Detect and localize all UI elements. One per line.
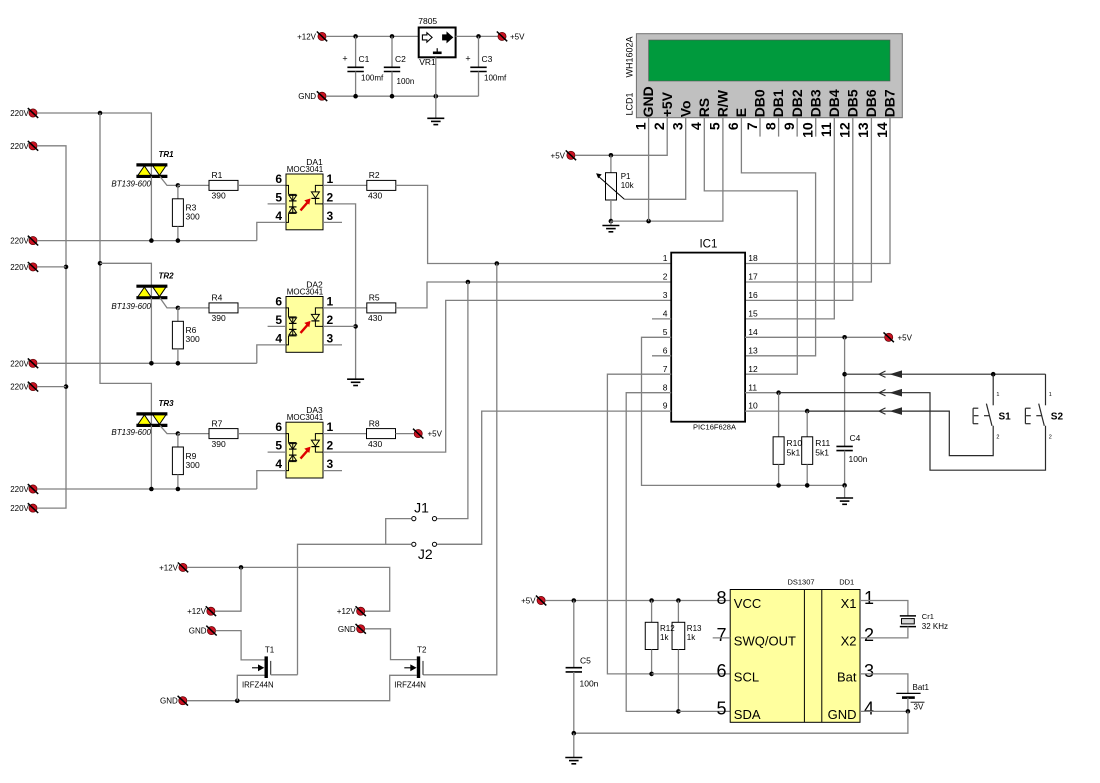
svg-text:LCD1: LCD1	[625, 92, 635, 115]
switch S2	[1025, 374, 1063, 440]
svg-text:GND: GND	[189, 627, 207, 636]
regulator VR1 7805	[418, 16, 455, 67]
node C2 bottom	[390, 94, 395, 99]
capacitor C2	[384, 36, 414, 96]
svg-text:390: 390	[212, 439, 226, 449]
wire feed branch TR2	[100, 263, 151, 286]
svg-text:100n: 100n	[849, 454, 868, 464]
node C1 top	[353, 34, 358, 39]
wire IC1 pin9 to J2	[439, 411, 671, 544]
svg-text:1: 1	[327, 420, 334, 434]
node R10 top	[776, 390, 781, 395]
svg-text:3: 3	[864, 661, 874, 681]
LCD pin 13 number	[855, 122, 871, 138]
wire DA2 pin4 to 220V row	[257, 345, 286, 363]
svg-text:2: 2	[327, 439, 334, 453]
svg-text:2: 2	[651, 122, 667, 130]
svg-text:+5V: +5V	[428, 430, 443, 439]
svg-text:100n: 100n	[397, 77, 415, 86]
svg-text:8: 8	[716, 588, 726, 608]
connector +12V top	[297, 32, 327, 42]
IC1 pin 18 number	[748, 253, 758, 263]
wire LCD DB4 to IC1 pin15	[745, 118, 834, 319]
svg-text:C1: C1	[359, 54, 370, 64]
svg-text:C3: C3	[482, 54, 493, 64]
svg-text:R8: R8	[369, 418, 380, 428]
svg-text:+5V: +5V	[551, 151, 566, 160]
svg-text:220V: 220V	[10, 485, 29, 494]
LCD pin 11 number	[818, 122, 834, 137]
capacitor C3	[465, 36, 507, 96]
svg-text:7: 7	[716, 625, 726, 645]
svg-text:Bat: Bat	[837, 669, 857, 684]
svg-text:+: +	[342, 54, 347, 64]
connector +5V lcd	[551, 150, 577, 160]
node +5V to buttons	[842, 372, 847, 377]
connector +5V DA3	[413, 429, 443, 439]
connector +5V top	[497, 32, 525, 42]
wire DA3 pin4 to 220V row	[257, 471, 286, 489]
wire DA2 pin2	[323, 325, 356, 327]
LCD pin 10 number	[800, 122, 816, 138]
connector 220V #8	[10, 503, 38, 513]
capacitor C5 100n	[566, 601, 599, 734]
svg-text:GND: GND	[160, 697, 178, 706]
wire IC1 pin8 to SDA	[626, 393, 678, 712]
svg-text:11: 11	[818, 122, 834, 137]
wire IC1 pin11	[745, 392, 779, 394]
wire top ground rail	[326, 95, 479, 97]
LCD pin 9 DB2 label	[789, 89, 805, 117]
LCD pin 9 stub	[796, 118, 798, 137]
jumper J2	[412, 542, 437, 562]
node DA2 pin2 join	[353, 324, 358, 329]
svg-text:100n: 100n	[580, 679, 599, 689]
svg-text:J1: J1	[414, 499, 429, 515]
wire 220V lower row ch DA3	[37, 488, 257, 490]
LCD pin 12 number	[837, 122, 853, 138]
svg-text:R4: R4	[212, 293, 223, 303]
node C5 gnd	[572, 731, 577, 736]
node triac MT1 row ch DA2	[149, 361, 154, 366]
svg-text:E: E	[733, 108, 749, 117]
svg-text:300: 300	[186, 212, 200, 222]
svg-text:GND: GND	[640, 86, 656, 117]
node P1 top	[609, 153, 614, 158]
IC1 pin 7 number	[663, 364, 668, 374]
wire IC1 pin10	[745, 410, 807, 412]
svg-text:+12V: +12V	[297, 32, 317, 41]
LCD pin 8 stub	[778, 118, 780, 137]
connector 220V #6	[10, 382, 38, 392]
IC1 pin 2 number	[663, 272, 668, 282]
LCD pin 1 GND label	[640, 86, 656, 117]
IC1 pin 11 number	[748, 382, 757, 392]
svg-text:PIC16F628A: PIC16F628A	[693, 423, 736, 432]
svg-text:DB4: DB4	[826, 89, 842, 117]
node TR gate junction ch DA2	[176, 306, 181, 311]
svg-text:6: 6	[725, 122, 741, 130]
wire crystal to X2	[860, 627, 908, 638]
svg-text:RS: RS	[696, 98, 712, 117]
svg-text:6: 6	[275, 420, 282, 434]
connector +12V c	[337, 606, 366, 616]
LCD pin 1 number	[632, 122, 648, 130]
svg-text:3: 3	[327, 331, 334, 345]
svg-text:Bat1: Bat1	[913, 683, 930, 692]
wire R8 to +5V	[396, 433, 414, 435]
node R12 top	[649, 598, 654, 603]
svg-text:7805: 7805	[418, 16, 437, 26]
svg-text:10k: 10k	[621, 181, 635, 190]
svg-text:4: 4	[275, 457, 282, 471]
svg-text:C4: C4	[850, 433, 861, 443]
svg-text:DD1: DD1	[839, 578, 854, 587]
svg-text:R5: R5	[369, 293, 380, 303]
wire J2 right up	[437, 543, 482, 545]
svg-text:2: 2	[864, 625, 874, 645]
svg-text:SWQ/OUT: SWQ/OUT	[734, 633, 796, 648]
wire 220V lower row ch DA2	[37, 362, 257, 364]
node P1 bottom gnd	[609, 219, 614, 224]
wire LCD E to IC1 pin13	[741, 118, 815, 356]
svg-text:220V: 220V	[10, 142, 29, 151]
wire IC1 pin7 to SCL	[607, 374, 671, 674]
svg-text:5: 5	[275, 439, 282, 453]
svg-text:9: 9	[663, 401, 668, 411]
connector +12V a	[159, 563, 188, 573]
node C5 top	[572, 598, 577, 603]
wire LCD RS to IC1 pin12	[704, 118, 797, 375]
svg-text:MOC3041: MOC3041	[287, 165, 324, 174]
optocoupler DA1 MOC3041	[268, 157, 342, 230]
wire LCD pin1 down	[648, 118, 650, 221]
wire IC pin1 column to T2 drain	[423, 264, 497, 675]
svg-text:DB2: DB2	[789, 89, 805, 117]
resistor R7 390	[178, 418, 286, 448]
LCD pin 8 number	[762, 122, 778, 130]
svg-text:BT139-600: BT139-600	[111, 180, 151, 189]
node R13 top	[676, 598, 681, 603]
triac TR1 BT139-600	[111, 150, 177, 241]
node feed split	[98, 111, 103, 116]
capacitor C1	[342, 36, 384, 96]
LCD pin 5 R/W label	[714, 89, 730, 117]
LCD pin 2 +5V label	[659, 91, 675, 117]
svg-text:390: 390	[212, 313, 226, 323]
node C1 bottom	[353, 94, 358, 99]
node gnd R11	[805, 483, 810, 488]
svg-text:SCL: SCL	[734, 669, 759, 684]
node T1 source gnd	[235, 698, 240, 703]
node R11 top	[805, 409, 810, 414]
node R bottom row ch DA1	[176, 238, 181, 243]
wire Bat to battery	[860, 674, 908, 694]
resistor R8 430	[323, 418, 396, 448]
svg-text:14: 14	[874, 122, 890, 138]
LCD pin 6 E label	[733, 108, 749, 117]
ground C5	[565, 733, 582, 764]
svg-text:BT139-600: BT139-600	[111, 428, 151, 437]
LCD pin 11 DB4 label	[826, 89, 842, 117]
svg-text:1: 1	[864, 588, 874, 608]
svg-text:2: 2	[1049, 435, 1052, 441]
jumper J1	[412, 499, 437, 520]
LCD pin 5 number	[707, 122, 723, 130]
LCD pin 14 number	[874, 122, 890, 138]
wire DA3 pin2 to IC1 pin3	[323, 300, 671, 452]
wire LCD DB7 to IC1 pin18	[745, 118, 890, 264]
LCD pin 10 stub	[815, 118, 817, 137]
svg-text:10: 10	[748, 401, 758, 411]
optocoupler DA3 MOC3041	[268, 405, 342, 478]
wire LCD DB6 to IC1 pin17	[745, 118, 871, 282]
node 7805 gnd	[434, 94, 439, 99]
IC1 pin 8 number	[663, 382, 668, 392]
resistor R13 1k	[672, 601, 702, 712]
connector GND c	[160, 696, 188, 706]
svg-text:100mf: 100mf	[361, 73, 384, 82]
wire R5 to IC1 pin2	[396, 282, 671, 308]
LCD pin 2 number	[651, 122, 667, 130]
LCD pin 3 Vo label	[677, 100, 693, 117]
connector 220V #1	[10, 108, 38, 118]
wire IC1 pin14 to +5V	[745, 336, 884, 338]
svg-text:3: 3	[327, 209, 334, 223]
svg-text:R1: R1	[212, 170, 223, 180]
rtc pin 1 number	[864, 588, 874, 608]
connector 220V #5	[10, 358, 38, 368]
svg-text:9: 9	[781, 122, 797, 130]
svg-text:GND: GND	[828, 707, 857, 722]
svg-text:WH1602A: WH1602A	[625, 36, 635, 77]
svg-text:3V: 3V	[914, 703, 924, 712]
triac TR3 BT139-600	[111, 399, 177, 489]
IC1 pin 14 number	[748, 327, 758, 337]
IC1 pin6 stub	[652, 355, 671, 357]
svg-text:TR1: TR1	[159, 150, 175, 159]
svg-text:+: +	[465, 54, 470, 64]
battery Bat1 3V	[896, 683, 929, 711]
transistor T2 IRFZ44N	[394, 645, 427, 689]
resistor R2 430	[323, 170, 396, 200]
LCD1 WH1602A module	[625, 34, 903, 118]
wire S1 row to IC pin10	[807, 407, 993, 455]
rtc pin 5 number	[716, 699, 726, 719]
svg-text:T1: T1	[265, 645, 275, 654]
svg-text:300: 300	[186, 334, 200, 344]
connector GND b	[338, 624, 366, 634]
svg-text:18: 18	[748, 253, 758, 263]
LCD pin 4 RS label	[696, 98, 712, 117]
IC1 pin 4 number	[663, 309, 668, 319]
connector 220V #3	[10, 236, 38, 246]
svg-text:1k: 1k	[660, 633, 669, 642]
wire T1 drain	[271, 674, 298, 676]
optocoupler DA2 MOC3041	[268, 279, 342, 352]
svg-text:+12V: +12V	[159, 563, 179, 572]
node triac MT1 row ch DA1	[149, 238, 154, 243]
wire +12V b	[215, 567, 241, 611]
svg-text:390: 390	[212, 191, 226, 201]
rtc pin 3 number	[864, 661, 874, 681]
node C3 top	[476, 34, 481, 39]
svg-text:S1: S1	[999, 411, 1012, 422]
resistor R4 390	[178, 293, 286, 323]
svg-text:17: 17	[748, 272, 758, 282]
connector GND a	[189, 626, 217, 636]
svg-text:VCC: VCC	[734, 596, 761, 611]
svg-text:C2: C2	[395, 54, 406, 64]
svg-text:6: 6	[275, 294, 282, 308]
svg-text:8: 8	[762, 122, 778, 130]
svg-text:DB0: DB0	[752, 89, 768, 117]
svg-text:J2: J2	[418, 546, 433, 562]
svg-text:+12V: +12V	[337, 607, 357, 616]
node R bottom row ch DA3	[176, 487, 181, 492]
wire 220V#1 to TR1 top	[37, 113, 151, 165]
svg-text:5: 5	[275, 190, 282, 204]
ground C4	[836, 485, 853, 504]
LCD pin 6 number	[725, 122, 741, 130]
svg-text:430: 430	[368, 439, 382, 449]
svg-text:BT139-600: BT139-600	[111, 302, 151, 311]
svg-text:430: 430	[368, 191, 382, 201]
svg-text:100mf: 100mf	[484, 73, 507, 82]
svg-text:IC1: IC1	[699, 238, 717, 250]
svg-text:5k1: 5k1	[787, 447, 801, 457]
svg-text:IRFZ44N: IRFZ44N	[394, 680, 426, 689]
node triac MT1 row ch DA3	[149, 487, 154, 492]
svg-text:DS1307: DS1307	[787, 578, 814, 587]
wire J2 left to T1 drain	[298, 544, 412, 675]
wire +5V rtc rail	[545, 600, 730, 602]
wire rtc GND pin	[860, 710, 908, 712]
svg-text:1: 1	[663, 253, 668, 263]
svg-text:1: 1	[327, 294, 334, 308]
svg-text:4: 4	[688, 122, 704, 130]
svg-text:220V: 220V	[10, 109, 29, 118]
svg-text:6: 6	[716, 661, 726, 681]
svg-text:14: 14	[748, 327, 758, 337]
node TR gate junction ch DA3	[176, 431, 181, 436]
svg-text:GND: GND	[338, 625, 356, 634]
IC1 pin 15 number	[748, 309, 758, 319]
svg-text:2: 2	[663, 272, 668, 282]
resistor R12 1k	[645, 601, 675, 674]
svg-text:GND: GND	[298, 92, 316, 101]
IC1 pin 6 number	[663, 345, 668, 355]
wire GND b to T2	[365, 629, 417, 660]
svg-text:13: 13	[748, 345, 758, 355]
svg-text:3: 3	[663, 290, 668, 300]
svg-text:MOC3041: MOC3041	[287, 413, 324, 422]
svg-text:T2: T2	[417, 645, 427, 654]
node pin1 branch T2	[495, 261, 500, 266]
wire 220V#2 neutral column	[37, 146, 66, 508]
IC1 pin 5 number	[663, 327, 668, 337]
wire lcd ground rail	[611, 118, 723, 221]
wire +5V column to C4	[844, 337, 846, 446]
svg-text:3: 3	[670, 122, 686, 130]
connector +5V pin14	[884, 332, 913, 342]
wire X1 to crystal	[860, 601, 908, 616]
svg-text:R13: R13	[687, 624, 702, 633]
node +12V branch	[239, 565, 244, 570]
node LCD pin1 gnd	[646, 219, 651, 224]
wire 220V#4 stub	[37, 266, 66, 268]
svg-text:220V: 220V	[10, 237, 29, 246]
rtc pin 8 number	[716, 588, 726, 608]
svg-text:6: 6	[663, 345, 668, 355]
svg-text:+5V: +5V	[510, 32, 525, 41]
LCD pin 14 DB7 label	[882, 89, 898, 117]
svg-text:R/W: R/W	[714, 89, 730, 117]
svg-text:+12V: +12V	[187, 607, 207, 616]
node S1 top	[991, 372, 996, 377]
connector 220V #4	[10, 262, 38, 272]
potentiometer P1 10k	[596, 155, 634, 221]
LCD pin 13 DB6 label	[863, 89, 879, 117]
svg-text:2: 2	[327, 313, 334, 327]
wire button feed row	[845, 370, 1046, 378]
wire DA1 pin2 down	[323, 204, 356, 379]
wire +5V to LCD pin2	[575, 118, 667, 156]
LCD pin 7 stub	[759, 118, 761, 137]
resistor R10 5k1	[773, 393, 802, 486]
rtc pin 6 number	[716, 661, 726, 681]
svg-text:1: 1	[327, 172, 334, 186]
svg-text:12: 12	[748, 364, 758, 374]
IC1 pin 10 number	[748, 401, 758, 411]
connector +12V b	[187, 606, 216, 616]
wire P1 wiper to LCD Vo	[624, 118, 685, 200]
IC1 pin 12 number	[748, 364, 758, 374]
svg-text:4: 4	[275, 209, 282, 223]
resistor R6 300	[172, 308, 200, 363]
wire GND a to T1	[216, 631, 265, 660]
svg-text:X1: X1	[841, 596, 857, 611]
svg-text:7: 7	[744, 122, 760, 130]
resistor R3 300	[172, 185, 200, 240]
wire 220V#6 stub	[37, 386, 66, 388]
wire T1 source	[237, 675, 264, 700]
IC1 pin 9 number	[663, 401, 668, 411]
IC1 pin 13 number	[748, 345, 758, 355]
svg-text:4: 4	[864, 699, 874, 719]
node TR gate junction ch DA1	[176, 183, 181, 188]
svg-text:DB5: DB5	[844, 89, 860, 117]
svg-text:DB3: DB3	[807, 89, 823, 117]
transistor T1 IRFZ44N	[242, 645, 275, 689]
wire 7805 output to +5V	[456, 35, 498, 37]
node C2 top	[390, 34, 395, 39]
LCD pin 4 number	[688, 122, 704, 130]
node R bottom row ch DA2	[176, 361, 181, 366]
wire bottom GND rail	[187, 675, 417, 700]
LCD pin 9 number	[781, 122, 797, 130]
ground top	[427, 118, 444, 124]
connector 220V #2	[10, 141, 38, 151]
wire 220V lower row ch DA1	[37, 240, 257, 242]
resistor R1 390	[178, 170, 286, 200]
node R12 SCL	[649, 672, 654, 677]
svg-text:X2: X2	[841, 633, 857, 648]
svg-text:VR1: VR1	[419, 57, 436, 67]
LCD pin 3 number	[670, 122, 686, 130]
svg-text:300: 300	[186, 460, 200, 470]
rtc pin7 SWQ stub	[713, 637, 731, 639]
